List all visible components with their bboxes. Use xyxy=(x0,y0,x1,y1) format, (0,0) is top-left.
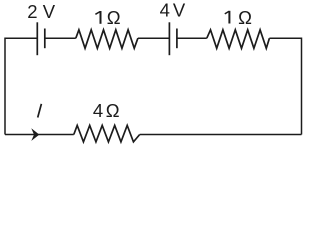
svg-text:Ω: Ω xyxy=(238,7,252,28)
svg-text:4: 4 xyxy=(93,100,103,121)
wire battery V1 to R1 xyxy=(45,37,76,39)
resistor R2 zigzag (1 ohm) xyxy=(207,30,270,49)
wire bottom-left segment through current arrow xyxy=(5,134,74,136)
svg-text:4: 4 xyxy=(160,0,170,21)
svg-text:Ω: Ω xyxy=(106,100,120,121)
svg-text:Ω: Ω xyxy=(107,7,121,28)
resistor R3 zigzag (4 ohm) xyxy=(74,125,140,141)
wire R1 to battery V2 xyxy=(138,37,170,39)
battery V2 long plate xyxy=(168,22,170,55)
svg-text:2 V: 2 V xyxy=(27,1,55,22)
current label I (italic stroke) xyxy=(38,104,42,118)
battery V1 long plate xyxy=(36,22,38,55)
svg-text:V: V xyxy=(173,0,186,21)
current arrow head xyxy=(31,128,39,141)
battery V1 short plate xyxy=(44,29,46,49)
label digit 1 of R2 xyxy=(225,11,230,24)
wire R2 to top-right corner and right side down xyxy=(269,38,301,134)
wire battery V2 to R2 xyxy=(177,37,207,39)
wire left side and top-left segment xyxy=(5,38,37,134)
battery V2 short plate xyxy=(176,29,178,49)
label digit 1 of R1 xyxy=(95,11,100,24)
wire bottom-right segment xyxy=(140,134,302,136)
resistor R1 zigzag (1 ohm) xyxy=(76,30,138,49)
